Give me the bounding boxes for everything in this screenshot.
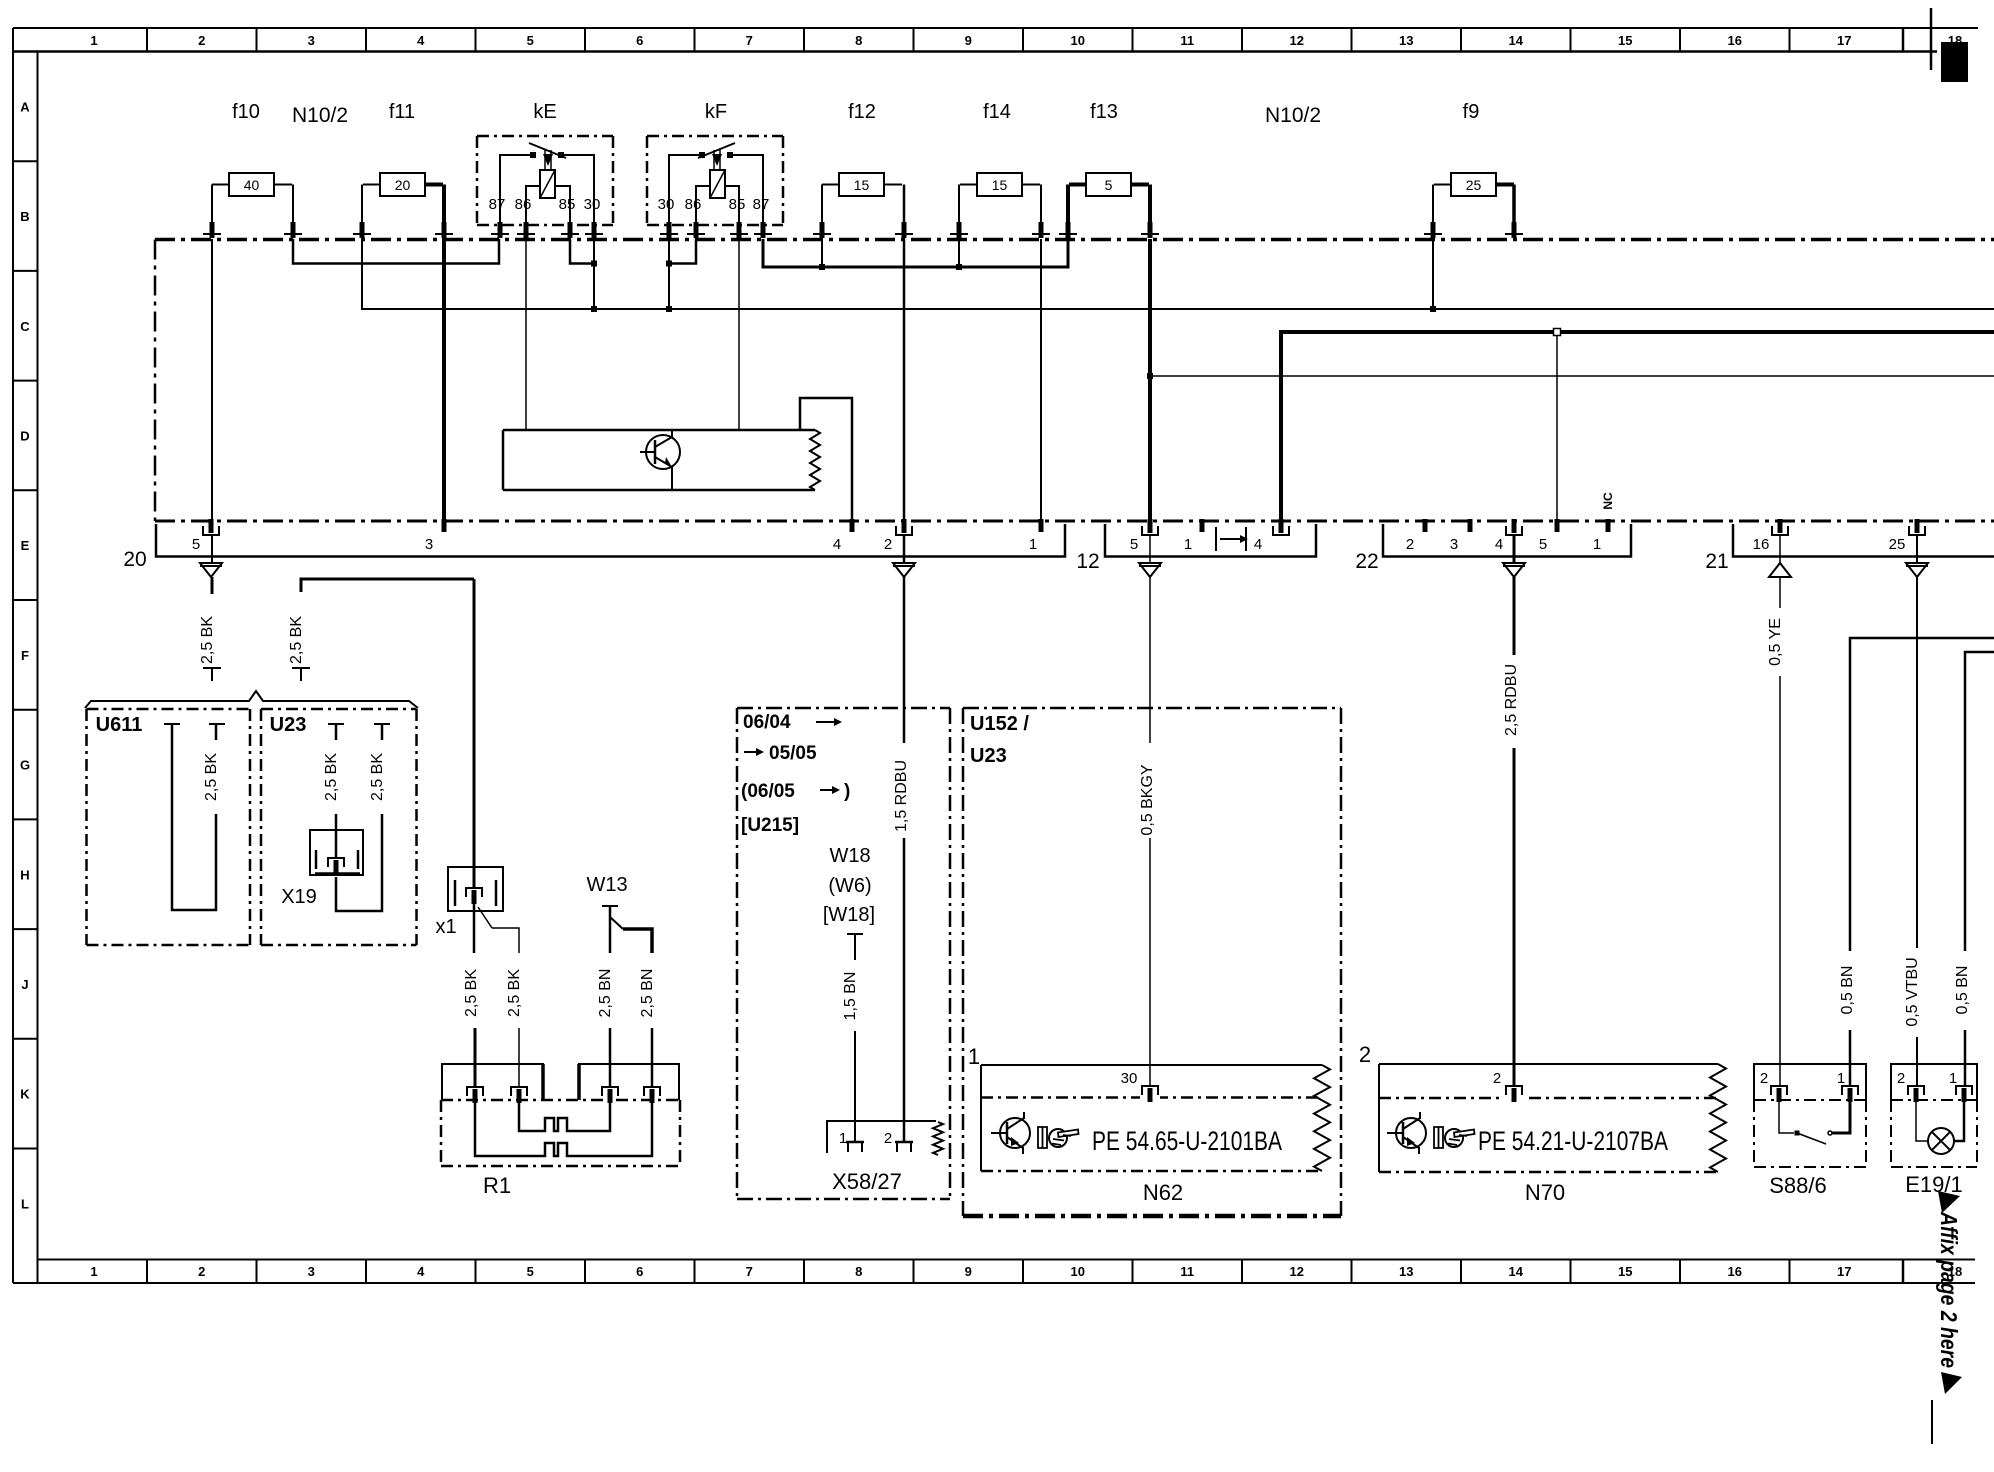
wire from rail to connector 22 pin 5 <box>1554 329 1561 522</box>
N62 reference text <box>1092 1126 1282 1156</box>
connector 22 pin 1 <box>1593 519 1611 553</box>
svg-text:W13: W13 <box>586 874 627 896</box>
svg-text:2,5 BN: 2,5 BN <box>639 969 656 1018</box>
svg-text:22: 22 <box>1355 550 1378 573</box>
svg-text:(W6): (W6) <box>828 875 871 897</box>
svg-text:E19/1: E19/1 <box>1905 1172 1963 1197</box>
svg-text:K: K <box>20 1087 30 1102</box>
wire 0,5 BKGY from connector 12 pin 5 to N62 <box>1139 535 1156 1086</box>
long wire row C (terminal 15 rail) <box>362 239 1994 312</box>
thin wire from connector 12 pin 5 node off-page <box>1147 373 1994 379</box>
wire 2,5 BN W13 lead 1 <box>597 969 614 1090</box>
ground symbol at connector 20 pin 5 <box>200 563 222 577</box>
wire 0,5 BN E19/1 pin 1 off-page <box>1954 652 1994 1086</box>
svg-text:2: 2 <box>198 33 205 48</box>
variant box 06/04 <box>737 708 950 1199</box>
svg-text:16: 16 <box>1728 1264 1742 1279</box>
svg-text:12: 12 <box>1076 550 1099 573</box>
svg-text:30: 30 <box>1121 1070 1138 1087</box>
variant note 05/05 <box>744 743 817 764</box>
svg-text:U152 /: U152 / <box>970 713 1029 735</box>
svg-text:87: 87 <box>753 196 770 213</box>
thick wire from connector 12 pin 4 off-page <box>1281 332 1994 521</box>
svg-text:16: 16 <box>1753 536 1770 553</box>
connector 22 pin 1 NC note <box>1601 492 1615 510</box>
connector 20 pin 1 <box>1029 519 1044 553</box>
svg-text:15: 15 <box>1618 1264 1632 1279</box>
wire 2,5 BK from connector 20 pin 5 <box>199 535 221 681</box>
svg-text:6: 6 <box>636 1264 643 1279</box>
ground block U611 <box>87 709 251 945</box>
X19 label <box>281 886 317 908</box>
fuse f9 (25A) <box>1433 173 1514 222</box>
N10/2 bus pins <box>203 222 1523 238</box>
wire kE-86 to transistor box <box>525 239 527 430</box>
connector 20 pin 3 <box>425 519 447 553</box>
component box U152/U23 <box>963 708 1341 1216</box>
svg-text:U611: U611 <box>96 714 143 736</box>
svg-text:1: 1 <box>1184 536 1192 553</box>
svg-text:2: 2 <box>1897 1070 1905 1087</box>
svg-text:X19: X19 <box>281 886 317 908</box>
arrow-up symbol at connector 21 pin 16 <box>1769 563 1791 577</box>
svg-text:9: 9 <box>965 1264 972 1279</box>
wire f14 left stub <box>958 239 960 267</box>
affix page 2 marker top <box>1938 1191 1960 1213</box>
svg-text:2,5 BK: 2,5 BK <box>463 969 480 1017</box>
fuse f10 label <box>232 101 260 123</box>
svg-text:2,5 BK: 2,5 BK <box>506 969 523 1017</box>
U152/U23 labels <box>970 713 1029 767</box>
N70 reference text <box>1478 1126 1668 1156</box>
svg-text:0,5 VTBU: 0,5 VTBU <box>1904 957 1921 1026</box>
connector block 22 label <box>1355 550 1378 573</box>
svg-text:20: 20 <box>395 177 411 193</box>
svg-text:86: 86 <box>685 196 702 213</box>
svg-text:2: 2 <box>884 536 892 553</box>
fuse f11 label <box>389 101 415 123</box>
wire 0,5 VTBU from connector 21 pin 25 to E19/1 <box>1904 535 1921 1086</box>
svg-text:17: 17 <box>1837 1264 1851 1279</box>
svg-text:A: A <box>20 99 30 114</box>
svg-text:40: 40 <box>244 177 260 193</box>
svg-text:1: 1 <box>90 1264 97 1279</box>
svg-text:D: D <box>20 428 29 443</box>
wire kF-85 to transistor box <box>738 239 740 430</box>
connector X19 <box>310 830 363 875</box>
svg-text:4: 4 <box>833 536 841 553</box>
svg-text:NC: NC <box>1601 492 1615 510</box>
connector block 21 label <box>1705 550 1728 573</box>
svg-text:x1: x1 <box>435 916 456 938</box>
svg-text:0,5 BN: 0,5 BN <box>1954 966 1971 1015</box>
wire 1,5 BN to X58/27 pin 1 <box>842 972 859 1142</box>
wire f10 right to kE-87 <box>293 239 499 264</box>
svg-text:1: 1 <box>1593 536 1601 553</box>
svg-text:N70: N70 <box>1525 1180 1565 1205</box>
connector block 12 label <box>1076 550 1099 573</box>
connector 12 coding arrow <box>1216 527 1248 551</box>
svg-text:L: L <box>21 1196 29 1211</box>
svg-text:14: 14 <box>1509 33 1524 48</box>
svg-text:5: 5 <box>192 536 200 553</box>
svg-text:7: 7 <box>746 1264 753 1279</box>
svg-text:5: 5 <box>527 33 534 48</box>
wire f11 right to connector 20 pin 3 <box>442 222 446 521</box>
fuse f12 (15A) <box>822 173 904 222</box>
svg-text:1: 1 <box>839 1130 847 1147</box>
affix page 2 marker bottom <box>1941 1372 1962 1394</box>
svg-text:15: 15 <box>992 177 1008 193</box>
svg-text:N62: N62 <box>1143 1180 1183 1205</box>
connector 22 pin 5 <box>1539 519 1560 553</box>
relay kE label <box>533 101 556 123</box>
wire f9 left stub <box>1432 239 1434 309</box>
switch S88/6 <box>1754 1064 1866 1167</box>
relay kF <box>647 136 783 225</box>
fuse f14 (15A) <box>959 173 1041 222</box>
svg-text:0,5 BN: 0,5 BN <box>1839 966 1856 1015</box>
relay kF label <box>705 101 727 123</box>
svg-text:1: 1 <box>1029 536 1037 553</box>
svg-text:2,5 BK: 2,5 BK <box>203 753 220 801</box>
control unit N70 <box>1379 1064 1726 1172</box>
svg-text:C: C <box>20 319 30 334</box>
wire kE-85 to kE-30 <box>570 239 597 267</box>
connector block 12 bracket <box>1105 524 1316 557</box>
fuse f10 (40A) <box>212 173 293 222</box>
svg-text:X58/27: X58/27 <box>832 1169 902 1194</box>
svg-text:[W18]: [W18] <box>823 904 875 926</box>
svg-text:(06/05: (06/05 <box>741 781 795 802</box>
ground symbol at connector 21 pin 25 <box>1906 563 1928 577</box>
connector 22 pin 3 <box>1450 519 1473 553</box>
svg-text:11: 11 <box>1180 33 1194 48</box>
svg-text:3: 3 <box>308 1264 315 1279</box>
ground symbol at connector 12 pin 5 <box>1139 563 1161 577</box>
connector 12 pin 4 <box>1254 519 1289 553</box>
svg-text:16: 16 <box>1728 33 1742 48</box>
svg-text:f14: f14 <box>983 101 1011 123</box>
connector 12 pin 5 <box>1130 519 1158 553</box>
variant note [U215] <box>741 815 799 836</box>
transistor symbol inside N10/2 <box>640 430 680 490</box>
resistor unit R1 connector shells <box>442 1064 679 1100</box>
brace over ground connector blocks <box>85 691 418 708</box>
svg-text:1: 1 <box>1949 1070 1957 1087</box>
svg-text:25: 25 <box>1889 536 1906 553</box>
svg-text:kF: kF <box>705 101 727 123</box>
wire 2,5 BK x1 pin lead 1 <box>463 904 480 1090</box>
ground symbol at connector 22 pin 4 <box>1503 563 1525 577</box>
wire 2,5 RDBU from connector 22 pin 4 to N70 <box>1503 535 1520 1086</box>
svg-text:10: 10 <box>1071 1264 1085 1279</box>
antenna lead-in W18 labels <box>829 845 870 867</box>
fuse f9 label <box>1463 101 1480 123</box>
variant note (06/05) <box>741 781 850 802</box>
connector 22 pin 2 <box>1406 519 1428 553</box>
svg-text:3: 3 <box>1450 536 1458 553</box>
svg-text:F: F <box>21 648 29 663</box>
svg-text:30: 30 <box>658 196 675 213</box>
svg-text:f13: f13 <box>1090 101 1118 123</box>
svg-text:[U215]: [U215] <box>741 815 799 836</box>
svg-text:87: 87 <box>489 196 506 213</box>
antenna W18 terminal <box>847 934 863 960</box>
svg-text:W18: W18 <box>829 845 870 867</box>
wire f12 left stub <box>821 239 823 267</box>
connector 22 pin 4 <box>1495 519 1522 553</box>
svg-text:3: 3 <box>308 33 315 48</box>
N62 label <box>1143 1180 1183 1205</box>
svg-text:S88/6: S88/6 <box>1769 1173 1827 1198</box>
svg-text:1: 1 <box>90 33 97 48</box>
R1 label <box>483 1173 511 1198</box>
svg-text:2,5 BK: 2,5 BK <box>288 616 305 664</box>
svg-text:5: 5 <box>1105 177 1113 193</box>
R1 pin 2 <box>509 1086 529 1104</box>
svg-text:2: 2 <box>198 1264 205 1279</box>
see-reference hand icon in N70 <box>1434 1127 1475 1148</box>
control unit N62 pin row number 1 <box>968 1044 980 1069</box>
svg-text:2: 2 <box>884 1130 892 1147</box>
svg-text:2: 2 <box>1359 1042 1371 1067</box>
svg-text:14: 14 <box>1509 1264 1524 1279</box>
wire 2,5 BK from x1 to ground brace <box>288 579 474 681</box>
svg-text:4: 4 <box>1495 536 1503 553</box>
svg-text:1,5 BN: 1,5 BN <box>842 972 859 1021</box>
connector block 22 bracket <box>1383 524 1631 557</box>
resistor R1 element upper <box>519 1103 610 1131</box>
connector 21 pin 16 <box>1753 519 1788 553</box>
svg-text:): ) <box>844 781 850 802</box>
wire f13 right to connector 12 pin 5 <box>1148 239 1152 521</box>
svg-text:PE 54.65-U-2101BA: PE 54.65-U-2101BA <box>1092 1126 1282 1156</box>
svg-text:6: 6 <box>636 33 643 48</box>
wire kF-86 to kF-30 <box>666 239 696 267</box>
connector block 21 bracket <box>1733 524 1994 557</box>
svg-text:25: 25 <box>1466 177 1482 193</box>
resistor R1 element lower <box>475 1103 652 1156</box>
control unit N10/2 label (left) <box>292 104 348 127</box>
see-reference hand icon in N62 <box>1038 1127 1079 1148</box>
control unit N62 <box>981 1065 1330 1171</box>
svg-text:05/05: 05/05 <box>769 743 817 764</box>
svg-text:13: 13 <box>1399 33 1413 48</box>
connector 20 pin 4 <box>833 519 855 553</box>
ground symbol at connector 20 pin 2 <box>893 563 915 577</box>
svg-text:B: B <box>20 209 29 224</box>
svg-text:1: 1 <box>1837 1070 1845 1087</box>
connector 20 pin 2 <box>884 519 912 553</box>
N10/2 internal amplifier box <box>503 430 820 490</box>
svg-text:f11: f11 <box>389 101 415 123</box>
R1 pin 3 <box>600 1086 620 1104</box>
connector 20 pin 5 <box>192 519 219 553</box>
svg-text:N10/2: N10/2 <box>292 104 348 127</box>
svg-text:2,5 RDBU: 2,5 RDBU <box>1503 664 1520 736</box>
svg-text:2,5 BK: 2,5 BK <box>369 753 386 801</box>
wire kE-30 down to node <box>591 239 597 312</box>
svg-text:13: 13 <box>1399 1264 1413 1279</box>
connector block 20 bracket <box>156 524 1065 557</box>
svg-text:10: 10 <box>1071 33 1085 48</box>
svg-text:9: 9 <box>965 33 972 48</box>
svg-text:06/04: 06/04 <box>743 712 791 733</box>
control unit N10/2 box boundary (bus) <box>155 240 1994 522</box>
wire 1,5 RDBU from connector 20 pin 2 <box>893 535 910 1142</box>
svg-text:kE: kE <box>533 101 556 123</box>
svg-text:8: 8 <box>855 1264 862 1279</box>
connector x1 <box>448 867 503 911</box>
control unit N10/2 label (right) <box>1265 104 1321 127</box>
N70 label <box>1525 1180 1565 1205</box>
svg-text:2: 2 <box>1493 1070 1501 1087</box>
svg-text:0,5 BKGY: 0,5 BKGY <box>1139 764 1156 835</box>
resistor R1 box <box>441 1100 680 1166</box>
svg-text:17: 17 <box>1837 33 1851 48</box>
transistor symbol in N70 <box>1387 1112 1426 1154</box>
S88/6 label <box>1769 1173 1827 1198</box>
wire x1 riser <box>473 579 476 889</box>
svg-text:15: 15 <box>1618 33 1632 48</box>
R1 pin 1 <box>465 1086 485 1104</box>
svg-text:U23: U23 <box>270 714 307 736</box>
svg-text:R1: R1 <box>483 1173 511 1198</box>
connector 21 pin 25 <box>1889 519 1925 553</box>
wire kF-30 down to node <box>666 239 672 312</box>
svg-text:11: 11 <box>1180 1264 1194 1279</box>
svg-text:2,5 BN: 2,5 BN <box>597 969 614 1018</box>
svg-text:5: 5 <box>1539 536 1547 553</box>
R1 pin 4 <box>642 1086 662 1104</box>
relay kE <box>477 136 613 225</box>
svg-text:30: 30 <box>584 196 601 213</box>
svg-text:4: 4 <box>417 33 425 48</box>
svg-text:4: 4 <box>1254 536 1262 553</box>
wire f10 left to connector 20 pin 5 <box>211 239 213 521</box>
svg-text:2,5 BK: 2,5 BK <box>199 616 216 664</box>
wire 0,5 BN S88/6 pin 1 off-page <box>1839 638 1994 1086</box>
svg-text:Affix page 2 here: Affix page 2 here <box>1936 1211 1962 1368</box>
svg-text:8: 8 <box>855 33 862 48</box>
wire 2,5 BN W13 lead 2 <box>639 969 656 1090</box>
wire f14 right to connector 20 pin 1 <box>1040 239 1042 521</box>
svg-text:86: 86 <box>515 196 532 213</box>
svg-text:2: 2 <box>1406 536 1414 553</box>
connector block 20 label <box>123 548 146 571</box>
ground block U23 <box>261 709 417 945</box>
svg-text:f9: f9 <box>1463 101 1480 123</box>
fuse f13 (5A) <box>1068 173 1150 222</box>
svg-text:5: 5 <box>1130 536 1138 553</box>
svg-text:1,5 RDBU: 1,5 RDBU <box>893 760 910 832</box>
variant note 06/04 <box>743 712 842 733</box>
svg-text:5: 5 <box>527 1264 534 1279</box>
svg-text:f10: f10 <box>232 101 260 123</box>
svg-text:PE 54.21-U-2107BA: PE 54.21-U-2107BA <box>1478 1126 1668 1156</box>
svg-text:12: 12 <box>1290 33 1304 48</box>
svg-text:3: 3 <box>425 536 433 553</box>
svg-text:f12: f12 <box>848 101 876 123</box>
svg-text:7: 7 <box>746 33 753 48</box>
x1 label <box>435 916 456 938</box>
svg-text:12: 12 <box>1290 1264 1304 1279</box>
svg-text:4: 4 <box>417 1264 425 1279</box>
affix page 2 here text <box>1936 1211 1962 1368</box>
control unit N70 pin row number 2 <box>1359 1042 1371 1067</box>
wire 2,5 BK x1 pin lead 2 <box>478 907 523 1090</box>
X58/27 label <box>832 1169 902 1194</box>
svg-text:N10/2: N10/2 <box>1265 104 1321 127</box>
fuse f11 (20A) <box>362 173 444 222</box>
svg-text:85: 85 <box>729 196 746 213</box>
wire kF-87 to f12/f14/f13 <box>763 239 1068 270</box>
svg-text:U23: U23 <box>970 745 1007 767</box>
fuse f13 label <box>1090 101 1118 123</box>
svg-text:0,5 YE: 0,5 YE <box>1767 618 1784 666</box>
svg-text:2: 2 <box>1760 1070 1768 1087</box>
wire 0,5 YE from connector 21 pin 16 to S88/6 <box>1767 535 1784 1086</box>
svg-text:H: H <box>20 867 29 882</box>
svg-text:20: 20 <box>123 548 146 571</box>
fuse f12 label <box>848 101 876 123</box>
antenna W13 label <box>586 874 627 896</box>
transistor symbol in N62 <box>991 1112 1030 1154</box>
svg-text:15: 15 <box>854 177 870 193</box>
svg-text:2,5 BK: 2,5 BK <box>323 753 340 801</box>
svg-text:J: J <box>21 977 28 992</box>
antenna W13 <box>602 906 652 953</box>
wire amplifier output to connector 20 pin 4 <box>800 398 852 521</box>
svg-text:E: E <box>21 538 30 553</box>
E19/1 label <box>1905 1172 1963 1197</box>
lamp E19/1 <box>1891 1064 1977 1167</box>
svg-text:85: 85 <box>559 196 576 213</box>
svg-text:G: G <box>20 758 30 773</box>
fuse f14 label <box>983 101 1011 123</box>
svg-text:1: 1 <box>968 1044 980 1069</box>
svg-text:21: 21 <box>1705 550 1728 573</box>
connector 12 pin 1 <box>1184 519 1205 553</box>
wire f12 right to connector 20 pin 2 <box>903 239 906 521</box>
connector X58/27 <box>827 1121 943 1155</box>
